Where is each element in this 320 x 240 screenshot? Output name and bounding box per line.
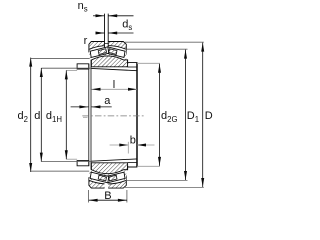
svg-text:a: a — [104, 95, 111, 107]
dimension line B — [89, 190, 127, 203]
dimension d1H extension lines — [66, 70, 77, 159]
label ds — [122, 18, 132, 32]
inner ring, lower section — [91, 163, 127, 174]
centerline (axis) — [82, 115, 144, 117]
sleeve nose, upper section — [128, 60, 137, 71]
dimension line D1 — [184, 50, 187, 180]
dimension d2 extension lines — [31, 59, 89, 172]
outer ring, lower section — [89, 173, 126, 188]
dimension line ns — [93, 14, 134, 17]
lubrication groove opening, upper section — [105, 41, 109, 48]
label b — [130, 135, 136, 147]
svg-text:b: b — [130, 135, 136, 147]
dimension line D — [201, 43, 204, 187]
label B — [104, 190, 111, 202]
label l — [113, 79, 115, 91]
label d2G — [161, 110, 178, 124]
svg-text:d: d — [34, 110, 40, 122]
label D — [205, 110, 213, 122]
svg-text:ns: ns — [78, 0, 88, 13]
svg-text:d1H: d1H — [46, 110, 62, 124]
label d — [34, 110, 40, 122]
svg-text:B: B — [104, 190, 111, 202]
taper reference tick — [83, 116, 88, 118]
dimension D extension lines — [125, 42, 204, 187]
cage sections, upper section — [89, 47, 126, 59]
inner ring, upper section — [91, 56, 127, 67]
dimension D1 extension lines — [126, 49, 187, 180]
svg-text:D: D — [205, 110, 213, 122]
dimension line d1H — [65, 70, 68, 159]
dimension d extension lines — [41, 68, 91, 161]
spherical roller pair, lower section — [90, 172, 125, 183]
svg-text:D1: D1 — [187, 110, 199, 124]
tapered bore line, lower section — [91, 159, 136, 161]
sleeve flange block, upper section — [77, 64, 89, 69]
svg-text:ds: ds — [122, 18, 132, 32]
cage sections, lower section — [89, 170, 126, 182]
sleeve nose, lower section — [128, 159, 137, 170]
label d1H — [46, 110, 62, 124]
label D1 — [187, 110, 199, 124]
dimension line d2 — [29, 58, 32, 172]
lubrication hole wall lines — [105, 14, 109, 48]
spherical roller pair, upper section — [90, 47, 125, 58]
outer ring, upper section — [89, 42, 126, 57]
dimension line ds — [96, 32, 134, 35]
svg-text:r: r — [84, 35, 88, 47]
dimension line d — [40, 68, 43, 162]
label d2 — [18, 110, 28, 124]
label ns — [78, 0, 88, 13]
dimension line a — [71, 105, 112, 108]
tapered bore line, upper section — [91, 68, 136, 70]
dimension d2G extension lines — [137, 63, 160, 166]
svg-text:l: l — [113, 79, 115, 91]
dimension line b — [110, 142, 155, 154]
label a — [104, 95, 111, 107]
svg-text:d2G: d2G — [161, 110, 178, 124]
svg-text:d2: d2 — [18, 110, 28, 124]
inner ring left face silhouette line — [90, 60, 92, 170]
sleeve flange block, lower section — [77, 161, 89, 166]
dimension line d2G — [158, 64, 161, 166]
label r — [84, 35, 88, 47]
lubrication groove opening, lower section — [105, 182, 109, 189]
inner ring right face silhouette line — [136, 63, 138, 167]
sleeve left face silhouette line — [88, 64, 90, 166]
dimension line l — [92, 88, 138, 91]
